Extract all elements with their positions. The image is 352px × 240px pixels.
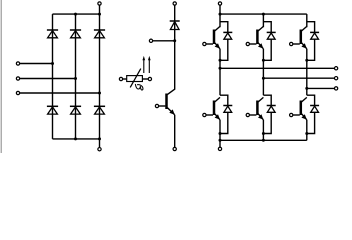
diode D9 (freewheel upper 2) (267, 32, 276, 39)
diode D5 (rectifier lower) (70, 106, 81, 114)
terminal: gate Q5 (246, 113, 249, 116)
wire: rectifier positive rail (53, 13, 100, 15)
IGBT Q4 (lower, phase 1) (214, 97, 220, 119)
wire: phase 2 output run (263, 77, 334, 79)
wire: phase 2 upper collector drop (262, 14, 264, 27)
wire: phase 1 output run (220, 67, 334, 69)
node: phase 2 lower collector to diode elbow (263, 95, 271, 105)
diode D8 (freewheel upper 1) (223, 32, 232, 39)
junction dot (74, 13, 77, 16)
terminal: gate Q1 (203, 42, 206, 45)
node: phase 2 lower emitter junction (262, 132, 265, 135)
wire: chopper gate lead (159, 105, 166, 107)
indicator arrow 2 (up) (148, 56, 151, 73)
terminal: chopper emitter (173, 147, 176, 150)
terminal: AC input 1 (16, 62, 19, 65)
wire: freewheel diode D9 anode return (263, 39, 271, 60)
node: phase 1 lower collector to diode elbow (220, 95, 228, 105)
terminal: brake diode cathode (173, 2, 176, 5)
thermistor RT (NTC) body (127, 76, 143, 82)
wire: phase 1 midpoint vertical (219, 49, 221, 95)
terminal: thermistor pin 2 (148, 77, 151, 80)
node: AC input 1 junction (51, 62, 54, 65)
indicator arrow 1 (up) (142, 56, 145, 73)
diode D10 (freewheel upper 3) (310, 32, 319, 39)
diode D6 (rectifier lower) (94, 106, 105, 114)
diode D2 (rectifier upper) (70, 30, 81, 38)
wire: freewheel diode D13 anode return (307, 112, 315, 133)
left table border (0, 0, 2, 153)
diode D1 (rectifier upper) (47, 30, 58, 38)
diode D4 (rectifier lower) (47, 106, 58, 114)
wire: AC input 2 feed (20, 78, 76, 80)
diode D11 (freewheel lower 1) (223, 106, 232, 113)
terminal: thermistor pin 1 (119, 77, 122, 80)
IGBT Q3 (upper, phase 3) (301, 26, 307, 48)
wire: phase 3 midpoint vertical (306, 49, 308, 95)
IGBT Q6 (lower, phase 3) (301, 97, 307, 119)
junction dot (98, 137, 101, 140)
wire: rectifier leg 3 / DC+ stub (99, 5, 101, 139)
node: phase 2 output tap (262, 77, 265, 80)
wire: inverter DC+ stub (219, 5, 221, 14)
terminal: gate Q2 (246, 42, 249, 45)
wire: thermistor lead left (123, 78, 127, 80)
wire: rectifier leg 2 (75, 14, 77, 139)
wire: rectifier leg 1 (52, 14, 54, 139)
junction dot (262, 13, 265, 16)
node: phase 2 upper emitter junction (262, 59, 265, 62)
wire: gate lead Q5 (250, 114, 257, 116)
wire: chopper collector line (174, 5, 176, 89)
wire: rectifier DC- stub (99, 139, 101, 147)
wire: rectifier negative rail (53, 138, 100, 140)
node: brake tap junction (173, 39, 176, 42)
terminal: AC input 2 (16, 77, 19, 80)
terminal: gate Q3 (290, 42, 293, 45)
node: phase 2 upper collector to diode elbow (263, 22, 271, 33)
diode D12 (freewheel lower 2) (267, 106, 276, 113)
node: phase 3 upper collector to diode elbow (307, 22, 315, 33)
terminal: chopper gate (155, 104, 158, 107)
wire: freewheel diode D10 anode return (307, 39, 315, 60)
terminal: brake DC+ tap (149, 39, 152, 42)
wire: AC input 3 feed (20, 92, 100, 94)
wire: phase 2 lower emitter drop (262, 120, 264, 141)
diode D3 (rectifier upper) (94, 30, 105, 38)
node: AC input 2 junction (74, 77, 77, 80)
junction dot (74, 137, 77, 140)
terminal: inverter DC- (218, 147, 221, 150)
wire: phase 3 lower emitter drop (306, 120, 308, 141)
wire: phase 1 upper collector drop (219, 14, 221, 27)
node: phase 1 upper emitter junction (219, 59, 222, 62)
terminal: phase 2 output (334, 77, 337, 80)
node: AC input 3 junction (98, 92, 101, 95)
diode D13 (freewheel lower 3) (310, 106, 319, 113)
node: phase 3 lower collector to diode elbow (307, 95, 315, 105)
wire: phase 3 upper collector drop (306, 14, 308, 27)
wire: freewheel diode D8 anode return (220, 39, 228, 60)
IGBT Q5 (lower, phase 2) (257, 97, 263, 119)
wire: gate lead Q4 (206, 114, 213, 116)
node: phase 1 upper collector to diode elbow (220, 22, 228, 33)
junction dot (262, 139, 265, 142)
node: phase 1 lower emitter junction (219, 132, 222, 135)
wire: gate lead Q6 (293, 114, 300, 116)
wire: chopper emitter line (174, 115, 176, 147)
wire: phase 2 midpoint vertical (262, 49, 264, 95)
wire: brake tap feed (153, 40, 175, 42)
transistor Q7 (brake chopper) (167, 89, 175, 115)
label: theta (temperature) (135, 84, 143, 90)
terminal: rectifier DC- output (98, 148, 101, 151)
IGBT Q1 (upper, phase 1) (214, 26, 220, 48)
junction dot (219, 13, 222, 16)
wire: freewheel diode D11 anode return (220, 112, 228, 133)
terminal: inverter DC+ (218, 2, 221, 5)
diode D7 (brake) (170, 21, 180, 30)
wire: inverter DC- rail (220, 139, 307, 141)
wire: phase 3 output run (307, 87, 334, 89)
wire: gate lead Q2 (250, 43, 257, 45)
node: phase 1 output tap (219, 67, 222, 70)
terminal: rectifier DC+ output (98, 2, 101, 5)
wire: phase 1 lower emitter drop (219, 120, 221, 141)
node: phase 3 lower emitter junction (305, 132, 308, 135)
wire: inverter DC- stub (219, 140, 221, 147)
wire: AC input 1 feed (20, 63, 53, 65)
terminal: phase 1 output (334, 67, 337, 70)
node: phase 3 output tap (305, 87, 308, 90)
node: phase 3 upper emitter junction (305, 59, 308, 62)
wire: inverter DC+ rail (220, 13, 307, 15)
junction dot (219, 139, 222, 142)
junction dot (98, 13, 101, 16)
terminal: phase 3 output (334, 87, 337, 90)
wire: gate lead Q3 (293, 43, 300, 45)
terminal: AC input 3 (16, 91, 19, 94)
thermistor RT diagonal stroke (130, 69, 141, 88)
wire: thermistor lead right (142, 78, 148, 80)
wire: gate lead Q1 (206, 43, 213, 45)
IGBT Q2 (upper, phase 2) (257, 26, 263, 48)
terminal: gate Q6 (290, 113, 293, 116)
terminal: gate Q4 (203, 113, 206, 116)
wire: freewheel diode D12 anode return (263, 112, 271, 133)
